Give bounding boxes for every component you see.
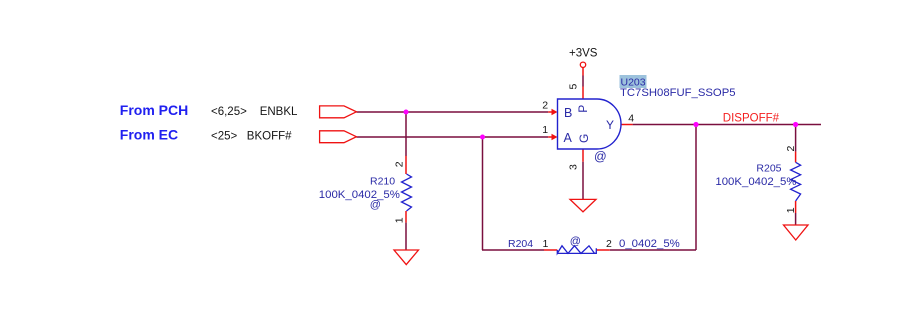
op-amp gate U203 body [558, 99, 622, 149]
svg-text:4: 4 [628, 112, 634, 124]
ground symbol below R210 [394, 250, 419, 265]
pin stub power pin 5 [582, 87, 584, 100]
svg-text:ENBKL: ENBKL [260, 106, 298, 118]
svg-text:0_0402_5%: 0_0402_5% [619, 238, 680, 250]
wire R204 to vertical riser [610, 249, 696, 251]
svg-text:3: 3 [568, 164, 580, 170]
svg-text:100K_0402_5%: 100K_0402_5% [715, 176, 796, 188]
pin stub ground pin 3 [582, 149, 584, 161]
svg-text:2: 2 [785, 146, 797, 152]
svg-text:Y: Y [606, 118, 614, 132]
svg-text:<25>: <25> [211, 131, 238, 143]
ground symbol below R205 [784, 225, 809, 240]
pin arrow B input [552, 109, 558, 115]
resistor R210 stub top [405, 156, 407, 174]
svg-text:+3VS: +3VS [569, 48, 598, 60]
svg-text:P: P [576, 105, 590, 113]
svg-text:R210: R210 [370, 176, 395, 188]
svg-text:BKOFF#: BKOFF# [247, 131, 292, 143]
ground symbol below gate [570, 199, 596, 211]
svg-text:G: G [577, 134, 591, 143]
svg-text:From EC: From EC [120, 127, 178, 143]
wire BKOFF# horizontal [356, 136, 548, 138]
wire gate ground segment [582, 162, 584, 199]
svg-text:1: 1 [542, 124, 548, 136]
junction node ENBKL/R210 [404, 110, 409, 115]
svg-text:R204: R204 [508, 238, 533, 250]
resistor R204 baseline [557, 252, 596, 254]
pin stub Y output [621, 124, 633, 126]
wire DISPOFF# output horizontal [633, 124, 821, 126]
svg-text:2: 2 [542, 99, 548, 111]
resistor R205 zigzag [791, 162, 801, 201]
svg-text:B: B [564, 106, 572, 120]
resistor R204 body [557, 246, 596, 254]
svg-text:1: 1 [785, 207, 797, 213]
svg-text:From PCH: From PCH [120, 102, 188, 118]
svg-text:DISPOFF#: DISPOFF# [723, 112, 780, 124]
connector From PCH flag [320, 106, 357, 118]
wire power +3VS segment [582, 76, 584, 87]
connector From EC flag [320, 131, 357, 143]
resistor R205 stub bottom [795, 201, 797, 213]
svg-text:100K_0402_5%: 100K_0402_5% [319, 189, 400, 201]
junction node BKOFF#/R204 [480, 135, 485, 140]
pin arrow A input [552, 134, 558, 140]
wire ENBKL to R210 vertical [405, 112, 407, 156]
svg-text:5: 5 [568, 84, 580, 90]
svg-text:R205: R205 [756, 163, 781, 175]
resistor R210 zigzag [402, 174, 412, 211]
wire BKOFF# vertical down [482, 137, 484, 250]
wire R205 top segment [795, 125, 797, 152]
wire ENBKL horizontal [356, 111, 548, 113]
svg-text:<6,25>: <6,25> [211, 106, 247, 118]
wire R205 bottom to ground [795, 213, 797, 225]
resistor R210 stub bottom [405, 211, 407, 223]
svg-text:1: 1 [394, 217, 406, 223]
svg-text:@: @ [594, 149, 607, 163]
pin stub A input [548, 136, 552, 138]
junction node DISPOFF#/R205 [793, 122, 798, 127]
power symbol stub [582, 68, 584, 76]
U203 refdes highlight [620, 75, 647, 88]
svg-text:@: @ [370, 199, 381, 211]
wire bottom left to R204 [482, 249, 544, 251]
resistor R204 stub right [597, 249, 610, 251]
svg-text:A: A [564, 131, 573, 145]
svg-text:2: 2 [394, 161, 406, 167]
power symbol +3VS circle [580, 62, 585, 67]
svg-text:1: 1 [543, 238, 549, 250]
junction node DISPOFF#/riser [693, 122, 698, 127]
svg-text:@: @ [570, 235, 581, 247]
svg-text:TC7SH08FUF_SSOP5: TC7SH08FUF_SSOP5 [620, 87, 736, 99]
wire riser up to output net [695, 125, 697, 251]
resistor R204 stub left [544, 249, 557, 251]
resistor R205 stub top [795, 152, 797, 163]
pin stub B input [548, 111, 552, 113]
svg-text:2: 2 [606, 238, 612, 250]
wire R210 bottom to ground [405, 223, 407, 250]
